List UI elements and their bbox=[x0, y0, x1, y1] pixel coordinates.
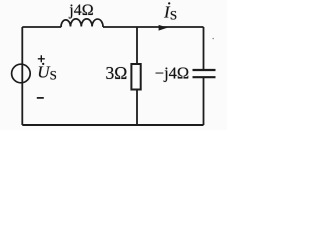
svg-text:S: S bbox=[170, 7, 177, 22]
wire: middle branch, lower segment bbox=[136, 90, 138, 126]
wire: left side (top corner down to bottom corner, passing through source) bbox=[21, 27, 23, 125]
inductor L1 (j4Ω) bbox=[61, 19, 103, 27]
wire: top side, right segment (inductor to top-right corner) bbox=[103, 26, 204, 28]
polarity - (below source) bbox=[37, 97, 44, 99]
svg-text:j4Ω: j4Ω bbox=[68, 2, 93, 19]
polarity + (above source) bbox=[38, 55, 45, 62]
scan speck near top-right bbox=[212, 38, 214, 40]
capacitor C1 (−j4Ω) plates bbox=[193, 70, 216, 77]
wire: right side, upper segment (corner down to capacitor) bbox=[203, 27, 205, 70]
wire: bottom side bbox=[22, 124, 203, 126]
resistor R1 (3Ω) bbox=[131, 64, 140, 90]
wire: middle branch, upper segment bbox=[136, 27, 138, 64]
svg-text:3Ω: 3Ω bbox=[106, 63, 128, 83]
wire: top side, left segment (from source to inductor) bbox=[22, 26, 61, 28]
wire: right side, lower segment (capacitor down to bottom corner) bbox=[203, 77, 205, 125]
svg-text:S: S bbox=[50, 68, 57, 83]
svg-text:−j4Ω: −j4Ω bbox=[155, 63, 189, 82]
voltage source Us (circle) bbox=[12, 64, 31, 83]
label Us (source voltage phasor U̇s) bbox=[37, 63, 57, 83]
label Is (current phasor İs) bbox=[163, 2, 177, 22]
current arrow Is on top wire bbox=[159, 25, 168, 31]
